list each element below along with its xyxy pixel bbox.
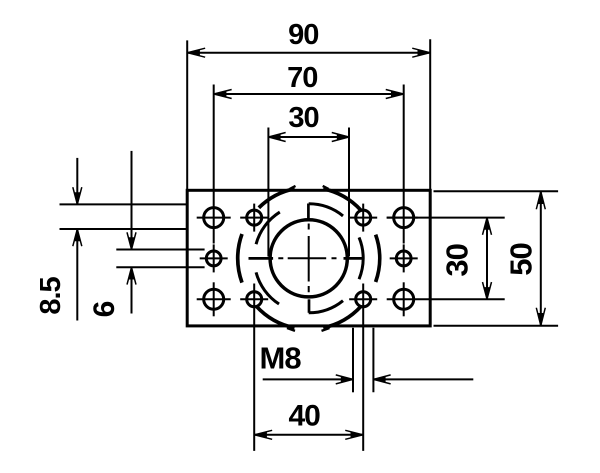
crosshair top-right inner hole xyxy=(349,217,377,219)
arrowhead 6 up xyxy=(129,268,135,280)
tapped hole M8 bottom-left inner xyxy=(247,292,262,307)
extension line 30 left xyxy=(267,128,269,257)
outer arc SE xyxy=(323,306,361,328)
arrowhead 30-top right xyxy=(337,134,349,140)
crosshair top-right hole xyxy=(387,217,418,219)
dimension line 6 upper xyxy=(131,151,133,250)
tangent line 8.5 bottom xyxy=(60,228,188,230)
plate outline (90 x 50 flange) xyxy=(187,190,430,326)
crosshair right side hole xyxy=(390,257,418,259)
crosshair left side hole xyxy=(200,257,228,259)
counterbore arc E xyxy=(359,237,363,279)
counterbore arc SE xyxy=(309,301,343,313)
extension line 90 left xyxy=(186,40,188,189)
outer arc NE xyxy=(323,189,361,211)
dimension line 90 xyxy=(187,52,430,54)
counterbore arc NW xyxy=(256,212,280,244)
arrowhead 90 right xyxy=(418,50,431,56)
centerline bottom-right inner hole extended xyxy=(362,284,364,451)
crosshair top-left hole xyxy=(197,217,231,219)
svg-text:30: 30 xyxy=(288,102,318,134)
mounting hole Ø8.5 bottom-left xyxy=(204,289,224,309)
crosshair bottom-left hole xyxy=(197,298,231,300)
extension line 70 right (hole centerline) xyxy=(403,85,405,244)
extension line 70 left (hole centerline) xyxy=(213,85,215,244)
extension line M8 right (thread) xyxy=(372,328,374,393)
arrowhead 90 left xyxy=(187,50,200,56)
extension line 30-right top (hole centerline) xyxy=(387,217,505,219)
counterbore arc NE xyxy=(309,204,343,216)
leader line M8 right xyxy=(373,378,473,380)
arrowhead M8 right xyxy=(374,377,386,383)
extension line M8 left (thread) xyxy=(352,328,354,393)
arrowhead 70 right xyxy=(391,91,404,97)
tangent line 6 bottom xyxy=(116,266,204,268)
counterbore arc SW xyxy=(256,272,279,304)
side hole Ø6 right xyxy=(396,251,411,266)
extension line 30-right bottom (hole centerline) xyxy=(387,298,505,300)
mounting hole Ø8.5 bottom-right xyxy=(394,289,414,309)
leader line M8 left xyxy=(263,378,353,380)
outer arc SW xyxy=(256,306,294,328)
dimension line 70 xyxy=(214,93,404,95)
svg-text:8.5: 8.5 xyxy=(35,276,67,314)
centerline bottom-left inner hole extended xyxy=(253,284,255,451)
crosshair top-left inner hole xyxy=(240,217,268,219)
svg-text:30: 30 xyxy=(439,244,474,276)
outer arc W xyxy=(238,234,242,283)
arrowhead 8.5 up xyxy=(74,229,80,241)
break mark S-left xyxy=(287,328,295,331)
arrowhead 6 down xyxy=(129,237,135,249)
tangent line 8.5 top xyxy=(60,203,188,205)
centerline tick W xyxy=(249,257,274,260)
centerline tick N xyxy=(307,204,310,220)
side hole Ø6 left xyxy=(206,251,221,266)
dimension line 40 xyxy=(254,434,363,436)
extension line 50 top xyxy=(434,190,559,192)
svg-text:90: 90 xyxy=(288,19,318,51)
arrowhead 40 left xyxy=(254,432,267,438)
dimension line 8.5 upper xyxy=(76,158,78,205)
arrowhead 30-top left xyxy=(269,134,281,140)
extension line 90 right xyxy=(429,39,431,189)
tangent line 6 top xyxy=(116,249,204,251)
crosshair bottom-right hole vertical xyxy=(403,282,405,316)
arrowhead 8.5 down xyxy=(74,192,80,204)
break mark N-left xyxy=(290,186,296,189)
central bore circle Ø30 xyxy=(270,220,347,297)
outer arc E xyxy=(376,235,380,282)
dimension line 30 right xyxy=(486,218,488,300)
dimension line 50 xyxy=(540,191,542,325)
svg-text:50: 50 xyxy=(504,243,539,275)
arrowhead 50 bottom xyxy=(538,313,544,326)
mounting hole Ø8.5 top-left xyxy=(204,208,224,228)
svg-text:40: 40 xyxy=(289,400,321,433)
svg-text:M8: M8 xyxy=(260,340,302,375)
extension line 50 bottom xyxy=(434,325,559,327)
centerline tick S xyxy=(308,299,311,313)
dimension line 6 lower xyxy=(131,267,133,313)
horizontal centerline xyxy=(278,257,336,259)
break mark N-right xyxy=(323,186,329,189)
dimension line 30 top xyxy=(268,136,349,138)
arrowhead 30-right bottom xyxy=(484,287,490,299)
arrowhead 50 top xyxy=(538,192,544,205)
svg-text:70: 70 xyxy=(287,62,317,94)
arrowhead M8 left xyxy=(341,377,353,383)
tapped hole M8 top-right inner xyxy=(356,210,371,225)
svg-text:6: 6 xyxy=(88,301,121,317)
crosshair bottom-left inner hole horizontal xyxy=(240,298,268,300)
extension line 30 right xyxy=(348,128,350,257)
tapped hole M8 bottom-right inner xyxy=(356,292,371,307)
arrowhead 30-right top xyxy=(484,218,490,230)
break mark S-right xyxy=(322,328,330,331)
arrowhead 40 right xyxy=(351,432,364,438)
mounting hole Ø8.5 top-right xyxy=(394,208,414,228)
centerline tick E xyxy=(344,257,363,260)
dimension line 8.5 lower xyxy=(76,229,78,321)
arrowhead 70 left xyxy=(214,91,227,97)
tapped hole M8 top-left inner xyxy=(247,210,262,225)
crosshair bottom-right inner hole horizontal xyxy=(349,298,377,300)
outer arc NW xyxy=(259,189,295,208)
vertical centerline xyxy=(308,224,310,293)
